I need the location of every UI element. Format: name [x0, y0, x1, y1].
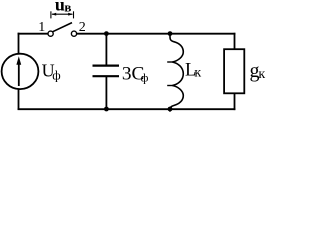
svg-text:ф: ф [141, 70, 149, 84]
node dot top inductor [168, 31, 173, 36]
switch blade [53, 23, 73, 32]
switch terminal 2 circle [71, 31, 76, 36]
switch terminal 1 circle [48, 31, 53, 36]
wire top-right segment [77, 33, 236, 35]
resistor g_k rectangle [224, 49, 244, 93]
inductor L_k coil [170, 36, 183, 112]
svg-text:к: к [194, 66, 201, 81]
wire top-left segment [18, 33, 48, 35]
wire capacitor top [105, 34, 107, 66]
inductor cusp tail 2 [167, 85, 172, 87]
dimension double arrow [52, 13, 72, 15]
node dot top capacitor [104, 31, 109, 36]
svg-text:2: 2 [79, 20, 86, 35]
node dot bottom capacitor [104, 107, 109, 112]
wire left vertical [18, 33, 20, 55]
source U_f circle [2, 54, 39, 89]
svg-text:1: 1 [38, 20, 45, 35]
svg-text:ф: ф [52, 67, 60, 82]
wire resistor top [234, 33, 236, 49]
wire bottom [18, 108, 236, 110]
wire capacitor bottom [105, 76, 107, 109]
dimension tick left [50, 11, 52, 18]
wire resistor bottom [234, 93, 236, 110]
inductor cusp tail 1 [167, 61, 172, 63]
wire left vertical lower [18, 89, 20, 110]
capacitor 3C_f plates [93, 64, 120, 66]
svg-text:к: к [258, 67, 265, 82]
node dot bottom inductor [168, 107, 173, 112]
source arrow [18, 61, 20, 87]
dimension tick right [73, 11, 75, 18]
svg-text:в: в [64, 0, 71, 15]
